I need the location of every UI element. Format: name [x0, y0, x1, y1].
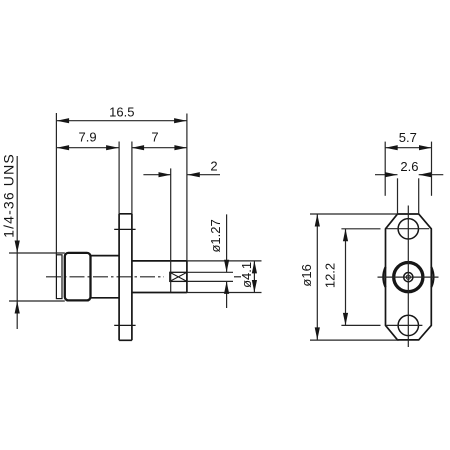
- svg-text:7.9: 7.9: [79, 130, 97, 145]
- svg-text:12.2: 12.2: [323, 263, 338, 288]
- svg-text:16.5: 16.5: [109, 105, 134, 120]
- svg-text:ø16: ø16: [299, 264, 314, 286]
- svg-text:5.7: 5.7: [399, 130, 417, 145]
- svg-text:1/4-36 UNS: 1/4-36 UNS: [1, 153, 17, 238]
- svg-text:2.6: 2.6: [400, 159, 418, 174]
- svg-text:ø1.27: ø1.27: [208, 219, 223, 252]
- svg-text:7: 7: [151, 130, 158, 145]
- svg-text:2: 2: [210, 159, 217, 174]
- svg-text:ø4.1: ø4.1: [239, 262, 254, 288]
